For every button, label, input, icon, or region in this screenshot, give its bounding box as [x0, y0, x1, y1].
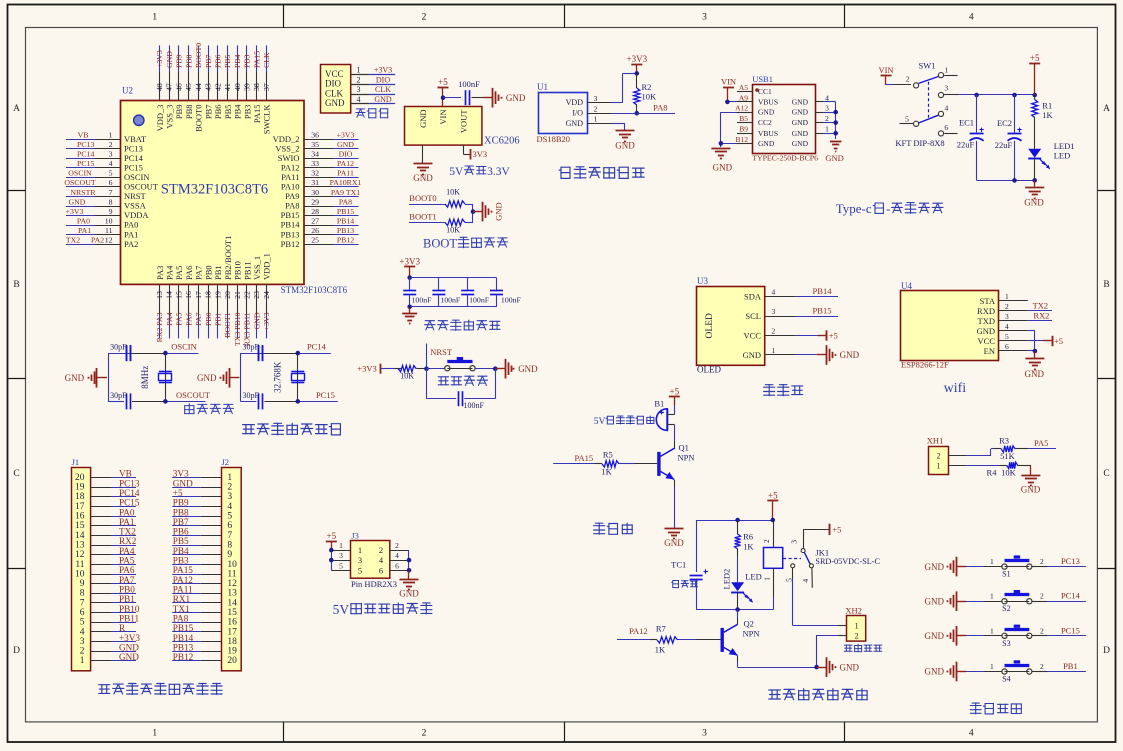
- svg-text:-: -: [886, 201, 890, 216]
- svg-text:3: 3: [772, 307, 776, 316]
- svg-text:9: 9: [227, 550, 232, 560]
- svg-text:TXD: TXD: [978, 316, 995, 326]
- svg-text:PC14: PC14: [119, 488, 140, 498]
- svg-text:30pF: 30pF: [110, 343, 127, 352]
- svg-text:PB4: PB4: [173, 546, 189, 556]
- svg-text:4: 4: [227, 502, 232, 512]
- svg-text:1K: 1K: [655, 645, 666, 655]
- svg-text:3: 3: [1005, 312, 1009, 321]
- svg-text:C: C: [1103, 469, 1109, 479]
- svg-text:12: 12: [75, 550, 85, 560]
- svg-text:DIO: DIO: [325, 79, 341, 89]
- svg-text:GND: GND: [840, 350, 860, 360]
- svg-text:2: 2: [825, 114, 829, 123]
- svg-text:VDDA: VDDA: [124, 210, 149, 220]
- svg-text:PC13: PC13: [1061, 556, 1080, 566]
- svg-text:wifi: wifi: [944, 381, 967, 396]
- svg-text:PB4: PB4: [233, 54, 242, 68]
- svg-text:48: 48: [155, 83, 164, 91]
- svg-text:1: 1: [990, 592, 994, 601]
- svg-text:PA5: PA5: [174, 266, 184, 280]
- svg-text:PA0: PA0: [77, 216, 90, 225]
- svg-text:GND: GND: [119, 642, 139, 652]
- svg-text:8: 8: [227, 540, 232, 550]
- svg-text:PB14: PB14: [281, 220, 301, 230]
- svg-text:PC14: PC14: [307, 342, 327, 352]
- svg-text:A9: A9: [739, 93, 748, 102]
- svg-text:3V3: 3V3: [473, 149, 488, 159]
- svg-text:PA1: PA1: [119, 517, 135, 527]
- svg-text:24: 24: [262, 291, 271, 299]
- svg-text:7: 7: [227, 531, 232, 541]
- svg-text:EC2: EC2: [997, 118, 1012, 128]
- svg-text:PB1: PB1: [119, 594, 135, 604]
- svg-text:A12: A12: [735, 104, 748, 113]
- svg-text:5V: 5V: [333, 602, 350, 617]
- svg-text:GND: GND: [418, 110, 428, 128]
- svg-text:5: 5: [358, 565, 362, 575]
- svg-text:33: 33: [311, 159, 319, 168]
- svg-text:3: 3: [80, 637, 85, 647]
- svg-text:S4: S4: [1002, 675, 1010, 684]
- svg-text:34: 34: [311, 150, 319, 159]
- svg-text:51K: 51K: [1000, 451, 1016, 461]
- svg-text:VOUT: VOUT: [458, 109, 468, 133]
- svg-text:J3: J3: [351, 530, 359, 540]
- svg-text:1: 1: [339, 541, 343, 550]
- svg-text:10K: 10K: [400, 371, 414, 380]
- svg-text:8: 8: [109, 197, 113, 206]
- svg-text:4: 4: [395, 551, 399, 560]
- svg-text:PA4: PA4: [165, 265, 175, 280]
- svg-text:2: 2: [762, 539, 771, 543]
- svg-text:14: 14: [75, 531, 85, 541]
- svg-text:NRSTR: NRSTR: [70, 188, 96, 197]
- svg-text:PB6: PB6: [214, 54, 223, 68]
- svg-text:+3V3: +3V3: [119, 633, 140, 643]
- svg-text:BOOT1: BOOT1: [223, 312, 232, 337]
- svg-text:R6: R6: [743, 532, 753, 542]
- svg-text:PB9: PB9: [173, 498, 189, 508]
- svg-text:PA7: PA7: [119, 575, 135, 585]
- svg-text:2: 2: [227, 483, 232, 493]
- svg-text:PA12: PA12: [337, 159, 354, 168]
- svg-text:PA15: PA15: [173, 565, 193, 575]
- svg-text:PB3: PB3: [173, 556, 189, 566]
- svg-text:DS18B20: DS18B20: [537, 134, 571, 144]
- svg-text:OSCOUT: OSCOUT: [64, 178, 95, 187]
- svg-text:6: 6: [379, 565, 383, 575]
- svg-text:PB12: PB12: [337, 236, 354, 245]
- svg-text:PB12: PB12: [173, 652, 194, 662]
- svg-text:10K: 10K: [446, 226, 460, 235]
- svg-text:2: 2: [906, 75, 910, 84]
- svg-text:35: 35: [311, 140, 319, 149]
- svg-text:27: 27: [311, 216, 319, 225]
- svg-text:TX2: TX2: [1033, 301, 1049, 311]
- svg-text:PB5: PB5: [223, 105, 233, 120]
- svg-text:PA2: PA2: [91, 236, 104, 245]
- svg-text:1K: 1K: [601, 467, 612, 477]
- svg-text:+5: +5: [832, 524, 841, 534]
- svg-text:XH1: XH1: [927, 436, 944, 446]
- svg-text:PA12: PA12: [281, 162, 300, 172]
- svg-text:3: 3: [358, 555, 362, 565]
- svg-text:+3V3: +3V3: [399, 256, 420, 266]
- svg-text:GND: GND: [925, 667, 945, 677]
- svg-text:18: 18: [75, 492, 85, 502]
- svg-text:PA4: PA4: [119, 546, 135, 556]
- svg-text:GND: GND: [374, 95, 392, 104]
- svg-text:32: 32: [311, 169, 319, 178]
- svg-text:4: 4: [825, 93, 829, 102]
- svg-text:1: 1: [855, 622, 859, 631]
- svg-text:2: 2: [357, 75, 361, 84]
- svg-text:PB10: PB10: [233, 261, 243, 280]
- svg-text:EC1: EC1: [959, 118, 974, 128]
- svg-text:6: 6: [944, 123, 948, 132]
- svg-text:GND: GND: [840, 662, 860, 672]
- svg-text:4: 4: [801, 579, 810, 583]
- svg-text:+3V3: +3V3: [262, 312, 271, 330]
- svg-text:23: 23: [252, 291, 261, 299]
- svg-text:19: 19: [227, 647, 237, 657]
- svg-text:VIN: VIN: [438, 110, 448, 125]
- svg-text:PA8: PA8: [653, 103, 667, 113]
- svg-text:+3V3: +3V3: [374, 66, 392, 75]
- svg-text:GND: GND: [337, 140, 354, 149]
- svg-text:PB13: PB13: [337, 226, 354, 235]
- svg-text:25: 25: [311, 236, 319, 245]
- svg-text:R7: R7: [656, 624, 666, 634]
- svg-text:22: 22: [243, 291, 252, 299]
- svg-text:I/O: I/O: [572, 109, 583, 118]
- svg-text:LED2: LED2: [722, 569, 732, 590]
- svg-text:18: 18: [204, 291, 213, 299]
- svg-text:32.768K: 32.768K: [272, 361, 282, 393]
- svg-text:TYPEC-250D-BCP6: TYPEC-250D-BCP6: [752, 154, 818, 163]
- svg-text:CLK: CLK: [262, 52, 271, 68]
- svg-text:PB4: PB4: [233, 104, 243, 119]
- svg-text:1: 1: [825, 125, 829, 134]
- svg-text:15: 15: [227, 608, 237, 618]
- svg-text:PB11: PB11: [242, 261, 252, 280]
- svg-text:PA9 TX1: PA9 TX1: [331, 188, 360, 197]
- svg-text:5: 5: [339, 561, 343, 570]
- svg-text:B: B: [13, 280, 19, 290]
- svg-text:GND: GND: [758, 108, 775, 117]
- svg-text:EN: EN: [984, 346, 995, 356]
- svg-text:6: 6: [227, 521, 232, 531]
- svg-text:PB9: PB9: [174, 105, 184, 120]
- svg-text:TX3 PB10: TX3 PB10: [233, 312, 242, 346]
- svg-text:100nF: 100nF: [412, 295, 433, 304]
- svg-text:40: 40: [233, 83, 242, 91]
- svg-text:3: 3: [594, 94, 598, 103]
- svg-text:XH2: XH2: [845, 606, 862, 616]
- svg-text:VSS_1: VSS_1: [252, 256, 262, 280]
- svg-text:3: 3: [109, 150, 113, 159]
- svg-text:14: 14: [165, 291, 174, 299]
- svg-text:DIO: DIO: [339, 150, 353, 159]
- svg-text:OSCIN: OSCIN: [171, 342, 197, 352]
- svg-text:LED: LED: [745, 572, 762, 582]
- svg-text:VCC: VCC: [744, 330, 762, 340]
- svg-text:PA8: PA8: [173, 614, 189, 624]
- svg-text:U2: U2: [122, 86, 133, 96]
- svg-text:44: 44: [194, 83, 203, 91]
- svg-text:9: 9: [80, 579, 85, 589]
- svg-text:A: A: [1103, 104, 1110, 114]
- svg-text:6: 6: [395, 561, 399, 570]
- svg-text:PB5: PB5: [173, 536, 189, 546]
- svg-text:OLED: OLED: [705, 313, 715, 338]
- svg-text:4: 4: [969, 13, 974, 23]
- svg-text:2: 2: [395, 541, 399, 550]
- svg-text:2: 2: [422, 13, 427, 23]
- svg-text:PC13: PC13: [119, 478, 140, 488]
- svg-text:100nF: 100nF: [463, 401, 484, 410]
- svg-text:GND: GND: [743, 350, 761, 360]
- svg-text:S3: S3: [1002, 639, 1010, 648]
- svg-text:3: 3: [339, 551, 343, 560]
- svg-text:22uF: 22uF: [957, 140, 975, 150]
- svg-text:PB14: PB14: [813, 286, 833, 296]
- svg-text:4: 4: [969, 729, 974, 739]
- svg-text:BOOT: BOOT: [423, 237, 457, 251]
- svg-text:PA6: PA6: [184, 312, 193, 325]
- svg-text:1: 1: [152, 729, 157, 739]
- svg-text:7: 7: [109, 188, 113, 197]
- svg-text:17: 17: [227, 627, 237, 637]
- svg-text:SRD-05VDC-SL-C: SRD-05VDC-SL-C: [815, 557, 880, 566]
- svg-text:GND: GND: [165, 51, 174, 68]
- svg-text:1: 1: [1005, 292, 1009, 301]
- svg-text:14: 14: [227, 598, 237, 608]
- svg-text:GND: GND: [792, 98, 809, 107]
- svg-text:+5: +5: [1030, 53, 1040, 63]
- svg-text:PB12: PB12: [281, 239, 300, 249]
- svg-text:26: 26: [311, 226, 319, 235]
- svg-text:U4: U4: [901, 281, 912, 291]
- svg-text:6: 6: [80, 608, 85, 618]
- svg-text:PC14: PC14: [124, 153, 144, 163]
- svg-text:PA0: PA0: [119, 507, 135, 517]
- svg-text:OSCOUT: OSCOUT: [176, 390, 211, 400]
- svg-text:VDD: VDD: [566, 98, 584, 107]
- svg-text:18: 18: [227, 637, 237, 647]
- svg-text:GND: GND: [119, 652, 139, 662]
- svg-text:4: 4: [772, 288, 776, 297]
- svg-text:RX2: RX2: [1033, 311, 1049, 321]
- svg-text:29: 29: [311, 197, 319, 206]
- svg-text:PB14: PB14: [173, 633, 194, 643]
- svg-text:PB1: PB1: [213, 265, 223, 280]
- svg-text:PC15: PC15: [1061, 625, 1080, 635]
- svg-text:GND: GND: [792, 108, 809, 117]
- svg-text:GND: GND: [925, 562, 945, 572]
- svg-text:PC14: PC14: [77, 150, 94, 159]
- svg-text:VCC: VCC: [325, 69, 344, 79]
- svg-text:VBUS: VBUS: [758, 129, 778, 138]
- svg-text:U1: U1: [537, 82, 548, 92]
- svg-text:PB11: PB11: [119, 614, 139, 624]
- svg-text:12: 12: [105, 236, 113, 245]
- svg-text:OSCOUT: OSCOUT: [124, 182, 159, 192]
- svg-text:2: 2: [937, 452, 941, 461]
- svg-text:D: D: [1103, 646, 1110, 656]
- svg-text:3V3: 3V3: [173, 469, 189, 479]
- svg-text:1: 1: [772, 346, 776, 355]
- svg-text:31: 31: [311, 178, 319, 187]
- svg-text:3: 3: [702, 729, 707, 739]
- svg-text:PB2/BOOT1: PB2/BOOT1: [223, 236, 233, 280]
- svg-text:+5: +5: [670, 386, 680, 396]
- svg-text:PA6: PA6: [119, 565, 135, 575]
- svg-text:NPN: NPN: [678, 452, 695, 462]
- svg-text:100nF: 100nF: [469, 295, 490, 304]
- svg-text:PA15: PA15: [575, 453, 594, 463]
- svg-text:VSS_2: VSS_2: [275, 143, 299, 153]
- svg-text:47: 47: [165, 83, 174, 91]
- svg-text:4: 4: [1005, 322, 1009, 331]
- svg-text:1: 1: [990, 662, 994, 671]
- svg-text:GND: GND: [792, 139, 809, 148]
- svg-text:R2: R2: [642, 82, 652, 92]
- svg-text:PB6: PB6: [213, 105, 223, 120]
- svg-text:12: 12: [227, 579, 237, 589]
- svg-text:D: D: [13, 646, 20, 656]
- svg-text:PA0: PA0: [124, 220, 138, 230]
- svg-text:1: 1: [945, 66, 949, 75]
- svg-text:OSCIN: OSCIN: [124, 172, 150, 182]
- svg-text:9: 9: [109, 207, 113, 216]
- svg-text:13: 13: [227, 589, 237, 599]
- svg-text:RX1: RX1: [173, 594, 191, 604]
- svg-text:PB15: PB15: [281, 210, 300, 220]
- svg-text:5: 5: [109, 169, 113, 178]
- svg-text:GND: GND: [493, 202, 503, 220]
- svg-text:CLK: CLK: [325, 88, 344, 98]
- svg-text:GND: GND: [615, 141, 635, 151]
- svg-text:STA: STA: [980, 296, 996, 306]
- svg-text:B9: B9: [739, 125, 748, 134]
- svg-text:R: R: [119, 623, 126, 633]
- svg-text:S2: S2: [1002, 604, 1010, 613]
- svg-text:1: 1: [937, 462, 941, 471]
- svg-text:2: 2: [80, 647, 85, 657]
- svg-text:GND: GND: [69, 197, 86, 206]
- svg-text:PC13: PC13: [77, 140, 94, 149]
- svg-text:GND: GND: [399, 589, 419, 599]
- svg-text:LED1: LED1: [1054, 141, 1075, 151]
- svg-text:38: 38: [252, 83, 261, 91]
- svg-text:1: 1: [109, 131, 113, 140]
- svg-text:2: 2: [855, 632, 859, 641]
- svg-text:VB: VB: [119, 469, 132, 479]
- svg-text:PA9: PA9: [285, 191, 299, 201]
- svg-text:PC15: PC15: [77, 159, 94, 168]
- svg-text:PA3: PA3: [155, 266, 165, 280]
- svg-text:PA10RX1: PA10RX1: [330, 178, 362, 187]
- svg-text:45: 45: [184, 83, 193, 91]
- svg-text:GND: GND: [325, 98, 345, 108]
- svg-text:R4: R4: [987, 468, 998, 478]
- svg-text:PA12: PA12: [173, 575, 193, 585]
- svg-text:PA8: PA8: [339, 197, 352, 206]
- svg-text:3: 3: [944, 83, 948, 92]
- svg-text:+5: +5: [829, 331, 838, 341]
- svg-text:CC2: CC2: [758, 118, 772, 127]
- svg-text:15: 15: [75, 521, 85, 531]
- svg-text:BOOT0: BOOT0: [194, 105, 204, 132]
- svg-text:7: 7: [80, 598, 85, 608]
- svg-text:10: 10: [75, 569, 85, 579]
- svg-text:TX1: TX1: [173, 604, 190, 614]
- svg-text:GND: GND: [664, 538, 684, 548]
- svg-text:PA15: PA15: [252, 105, 262, 124]
- svg-text:GND: GND: [252, 312, 261, 329]
- svg-text:PB14: PB14: [337, 216, 354, 225]
- svg-text:B12: B12: [735, 135, 748, 144]
- svg-text:GND: GND: [792, 118, 809, 127]
- svg-text:4: 4: [945, 104, 949, 113]
- svg-text:+3V3: +3V3: [357, 364, 376, 374]
- svg-text:16: 16: [75, 512, 85, 522]
- svg-text:PB8: PB8: [184, 54, 193, 68]
- svg-text:RX2 PA3: RX2 PA3: [155, 312, 164, 342]
- svg-text:2: 2: [1040, 626, 1044, 635]
- svg-text:PC15: PC15: [119, 498, 140, 508]
- svg-text:3.3V: 3.3V: [487, 166, 510, 178]
- svg-text:Type-c: Type-c: [836, 201, 872, 216]
- svg-text:CLK: CLK: [375, 85, 391, 94]
- svg-text:PB7: PB7: [204, 54, 213, 68]
- svg-text:20: 20: [223, 291, 232, 299]
- svg-text:17: 17: [194, 291, 203, 299]
- svg-text:5V: 5V: [594, 416, 606, 427]
- svg-text:VDD_3: VDD_3: [155, 105, 165, 132]
- svg-text:PA1: PA1: [78, 226, 91, 235]
- svg-text:1K: 1K: [743, 541, 754, 551]
- svg-text:10: 10: [105, 216, 113, 225]
- svg-text:A: A: [13, 104, 20, 114]
- svg-text:B: B: [1103, 280, 1109, 290]
- svg-text:10K: 10K: [446, 188, 460, 197]
- svg-text:J1: J1: [72, 457, 80, 467]
- svg-text:R5: R5: [603, 449, 613, 459]
- svg-text:5V: 5V: [449, 166, 464, 178]
- svg-text:XC6206: XC6206: [484, 136, 520, 147]
- svg-text:PA4: PA4: [165, 312, 174, 325]
- svg-text:VBAT: VBAT: [124, 134, 147, 144]
- svg-text:DIO: DIO: [376, 75, 390, 84]
- svg-text:J2: J2: [222, 457, 230, 467]
- svg-text:11: 11: [105, 226, 113, 235]
- svg-text:5: 5: [1005, 332, 1009, 341]
- svg-text:OLED: OLED: [697, 364, 721, 374]
- svg-text:PB3: PB3: [243, 54, 252, 68]
- svg-text:VSS_3: VSS_3: [165, 105, 175, 129]
- svg-text:KFT DIP-8X8: KFT DIP-8X8: [895, 138, 944, 148]
- svg-text:TC1: TC1: [671, 560, 686, 570]
- svg-text:1: 1: [227, 473, 232, 483]
- svg-text:OSCIN: OSCIN: [68, 169, 92, 178]
- svg-text:28: 28: [311, 207, 319, 216]
- svg-text:1: 1: [990, 557, 994, 566]
- svg-text:43: 43: [204, 83, 213, 91]
- svg-text:16: 16: [184, 291, 193, 299]
